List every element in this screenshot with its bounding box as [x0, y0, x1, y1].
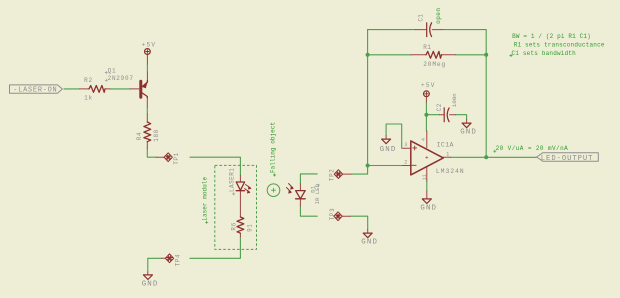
svg-text:TP3: TP3	[329, 208, 336, 221]
svg-text:R1: R1	[423, 44, 431, 51]
svg-text:R4: R4	[136, 132, 143, 141]
svg-text:-LASER-ON: -LASER-ON	[13, 87, 57, 95]
svg-text:GND: GND	[420, 204, 437, 212]
svg-text:180: 180	[153, 129, 160, 141]
svg-text:20Meg: 20Meg	[423, 61, 446, 68]
svg-text:R2: R2	[84, 77, 93, 84]
svg-text:91: 91	[246, 223, 253, 231]
svg-text:LED-OUTPUT: LED-OUTPUT	[541, 155, 594, 163]
svg-text:+5V: +5V	[421, 82, 436, 89]
svg-text:LASER1: LASER1	[229, 168, 236, 192]
svg-text:IC1A: IC1A	[437, 141, 454, 148]
svg-text:20 V/uA = 20 mV/nA: 20 V/uA = 20 mV/nA	[496, 145, 569, 152]
svg-text:GND: GND	[460, 129, 477, 137]
svg-text:GND: GND	[380, 146, 397, 154]
svg-text:11: 11	[422, 174, 428, 181]
svg-text:Q1: Q1	[108, 67, 117, 74]
svg-text:3: 3	[404, 142, 407, 148]
svg-text:100n: 100n	[451, 93, 458, 107]
svg-text:4: 4	[421, 138, 427, 141]
svg-text:TP1: TP1	[173, 152, 180, 165]
svg-text:C2: C2	[436, 103, 443, 111]
svg-text:2N2907: 2N2907	[108, 75, 134, 82]
svg-text:1k: 1k	[84, 95, 93, 102]
svg-text:2: 2	[404, 159, 407, 165]
svg-text:IR LED: IR LED	[314, 183, 321, 204]
svg-text:GND: GND	[361, 239, 378, 247]
svg-text:C1 sets bandwidth: C1 sets bandwidth	[512, 50, 577, 57]
svg-text:Laser module: Laser module	[202, 177, 209, 221]
svg-text:LM324N: LM324N	[436, 168, 465, 175]
svg-text:GND: GND	[142, 280, 159, 288]
svg-text:C1: C1	[418, 14, 425, 22]
svg-text:open: open	[435, 7, 442, 23]
svg-text:+5V: +5V	[142, 41, 157, 48]
svg-text:Falling object: Falling object	[269, 122, 276, 173]
svg-text:TP4: TP4	[175, 254, 182, 267]
svg-text:TP2: TP2	[328, 168, 335, 181]
svg-text:BW = 1 / (2 pi R1 C1): BW = 1 / (2 pi R1 C1)	[512, 33, 591, 40]
svg-text:1: 1	[446, 151, 449, 157]
svg-text:R1 sets transconductance: R1 sets transconductance	[514, 42, 605, 49]
svg-text:R6: R6	[230, 222, 237, 230]
